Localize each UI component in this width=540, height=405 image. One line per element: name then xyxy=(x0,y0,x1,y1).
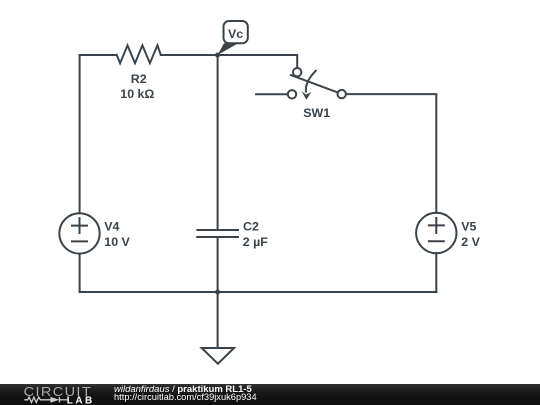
wire node A to capacitor xyxy=(217,55,219,229)
svg-text:V4: V4 xyxy=(104,220,119,234)
footer line 2 xyxy=(114,393,257,403)
svg-text:2 V: 2 V xyxy=(461,235,480,249)
svg-text:V5: V5 xyxy=(461,220,476,234)
probe Vc pointer xyxy=(218,43,239,55)
wire bottom node to ground xyxy=(217,292,219,348)
voltage source V5 body xyxy=(416,213,456,253)
footer bar xyxy=(0,384,540,405)
CircuitLab logo xyxy=(0,384,110,405)
svg-text:R2: R2 xyxy=(131,72,147,86)
svg-text:10 kΩ: 10 kΩ xyxy=(120,87,154,101)
probe Vc box xyxy=(224,21,248,43)
ground xyxy=(202,348,234,364)
wire resistor to node A xyxy=(161,54,218,56)
footer line 1 xyxy=(114,385,252,395)
svg-text:2 µF: 2 µF xyxy=(243,235,268,249)
svg-text:10 V: 10 V xyxy=(104,235,130,249)
bottom node junction dot xyxy=(215,290,220,295)
wire V5 bottom lead xyxy=(435,253,437,292)
wire V4 bottom lead xyxy=(79,254,81,293)
switch SW1 terminal circles xyxy=(288,68,346,99)
wire switch left stub xyxy=(256,93,288,95)
wire bottom rail xyxy=(80,291,437,293)
wire capacitor to bottom node xyxy=(217,238,219,292)
node A junction dot xyxy=(215,53,220,58)
capacitor C2 plates xyxy=(197,230,238,237)
wire switch right to V5 top xyxy=(346,94,436,213)
wire left vertical (V4 top lead) xyxy=(79,55,81,213)
svg-text:Vc: Vc xyxy=(228,27,243,41)
svg-text:SW1: SW1 xyxy=(303,106,330,120)
svg-text:LAB: LAB xyxy=(67,395,95,405)
resistor R2 xyxy=(117,45,161,63)
switch SW1 blade xyxy=(291,75,338,93)
switch SW1 arrowhead xyxy=(302,91,312,99)
wire node A to switch top xyxy=(218,55,298,68)
switch SW1 arrow arc xyxy=(306,71,316,92)
svg-text:C2: C2 xyxy=(243,220,259,234)
voltage source V4 body xyxy=(59,213,99,253)
wire top left segment xyxy=(80,54,117,56)
